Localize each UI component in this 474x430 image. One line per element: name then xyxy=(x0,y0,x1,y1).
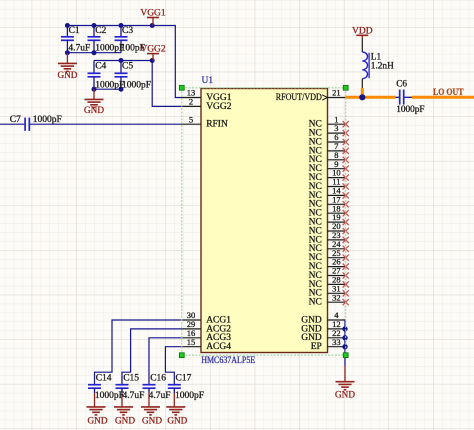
svg-text:5: 5 xyxy=(189,114,193,124)
svg-text:EP: EP xyxy=(311,342,322,352)
svg-text:21: 21 xyxy=(332,88,341,98)
svg-text:C5: C5 xyxy=(122,61,133,71)
svg-text:RFIN: RFIN xyxy=(206,120,228,130)
svg-text:2: 2 xyxy=(189,97,193,107)
svg-text:GND: GND xyxy=(142,415,162,425)
svg-text:ACG4: ACG4 xyxy=(206,342,231,352)
svg-text:33: 33 xyxy=(332,337,341,347)
svg-text:1000pF: 1000pF xyxy=(175,391,204,401)
svg-text:HMC637ALP5E: HMC637ALP5E xyxy=(201,356,255,366)
svg-text:GND: GND xyxy=(335,389,355,399)
svg-text:1000pF: 1000pF xyxy=(396,105,424,115)
svg-text:U1: U1 xyxy=(202,76,214,86)
svg-text:1000pF: 1000pF xyxy=(33,115,62,125)
svg-text:C7: C7 xyxy=(10,115,21,125)
svg-text:C15: C15 xyxy=(123,373,139,383)
svg-text:C6: C6 xyxy=(396,80,407,90)
svg-text:4.7uF: 4.7uF xyxy=(123,391,145,401)
svg-text:1000pF: 1000pF xyxy=(122,80,151,90)
svg-text:C1: C1 xyxy=(69,26,80,36)
svg-text:C17: C17 xyxy=(176,373,192,383)
svg-text:4.7uF: 4.7uF xyxy=(149,391,171,401)
svg-text:C16: C16 xyxy=(150,373,166,383)
svg-text:GND: GND xyxy=(115,415,135,425)
svg-text:GND: GND xyxy=(57,70,77,80)
svg-text:LO OUT: LO OUT xyxy=(433,88,464,98)
svg-text:1.2nH: 1.2nH xyxy=(371,61,394,71)
svg-text:C2: C2 xyxy=(95,26,106,36)
svg-text:1000pF: 1000pF xyxy=(95,391,124,401)
svg-text:NC: NC xyxy=(309,298,322,308)
svg-text:1000pF: 1000pF xyxy=(95,80,124,90)
svg-text:15: 15 xyxy=(187,337,196,347)
svg-text:32: 32 xyxy=(332,292,341,302)
svg-text:GND: GND xyxy=(167,415,187,425)
svg-text:100pF: 100pF xyxy=(121,44,145,54)
svg-text:VGG2: VGG2 xyxy=(206,102,232,112)
svg-text:C14: C14 xyxy=(96,373,112,383)
svg-text:RFOUT/VDD: RFOUT/VDD xyxy=(276,93,322,103)
svg-text:GND: GND xyxy=(88,415,108,425)
svg-text:C3: C3 xyxy=(122,26,133,36)
svg-text:4.7uF: 4.7uF xyxy=(68,44,90,54)
svg-text:C4: C4 xyxy=(95,61,106,71)
svg-text:GND: GND xyxy=(84,105,104,115)
